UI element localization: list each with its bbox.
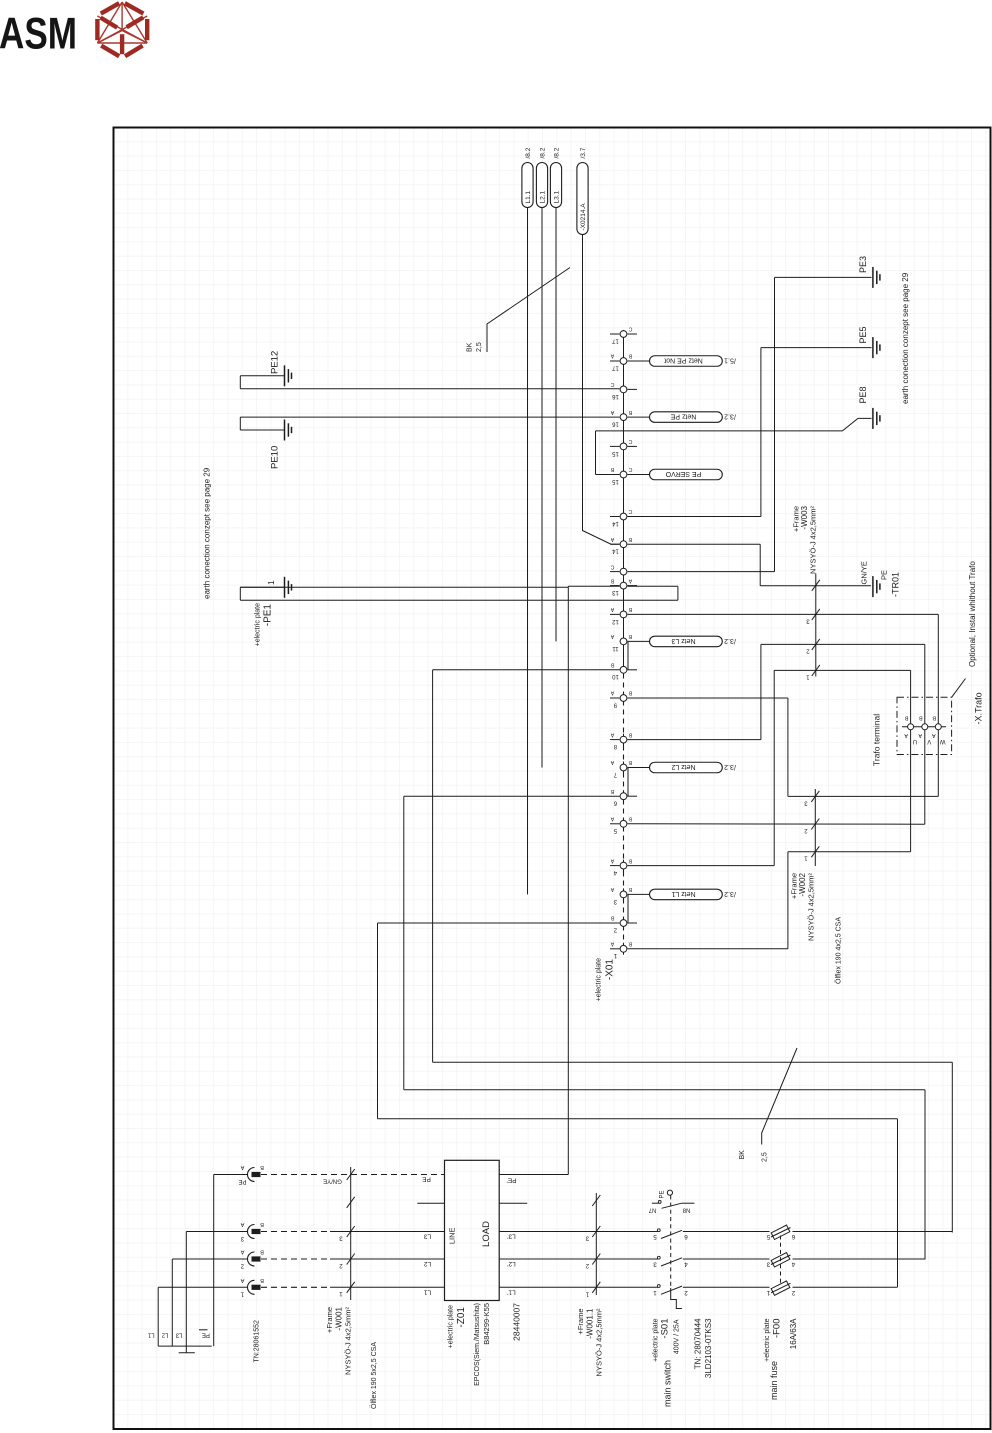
svg-text:-W001: -W001 xyxy=(335,1306,344,1330)
svg-text:4: 4 xyxy=(791,1261,795,1268)
svg-text:B: B xyxy=(904,714,908,720)
svg-text:L1: L1 xyxy=(424,1288,432,1295)
svg-text:3: 3 xyxy=(766,1261,770,1268)
svg-text:1: 1 xyxy=(240,1291,244,1297)
svg-text:2,5: 2,5 xyxy=(476,342,483,352)
svg-text:13: 13 xyxy=(612,589,619,595)
svg-text:3: 3 xyxy=(653,1261,657,1268)
svg-text:PE5: PE5 xyxy=(858,326,868,343)
svg-text:PE: PE xyxy=(202,1331,210,1337)
svg-text:V: V xyxy=(927,738,931,744)
svg-text:N8: N8 xyxy=(682,1206,690,1212)
svg-text:6: 6 xyxy=(684,1233,688,1240)
svg-text:+electric plate: +electric plate xyxy=(596,958,603,1001)
svg-text:W: W xyxy=(940,738,946,744)
svg-text:+electric plate: +electric plate xyxy=(764,1318,771,1361)
svg-text:B: B xyxy=(610,577,614,583)
svg-text:2: 2 xyxy=(684,1289,688,1296)
svg-text:L1.1: L1.1 xyxy=(525,190,532,203)
svg-text:L2: L2 xyxy=(424,1260,432,1267)
svg-text:L1': L1' xyxy=(507,1288,515,1295)
svg-text:PE3: PE3 xyxy=(858,256,868,273)
svg-text:B: B xyxy=(260,1277,264,1283)
svg-text:-X0214.A: -X0214.A xyxy=(580,203,587,231)
svg-text:EPCOS(Siem./Matsushita): EPCOS(Siem./Matsushita) xyxy=(474,1303,481,1386)
svg-text:1: 1 xyxy=(804,855,808,861)
svg-text:A: A xyxy=(240,1277,244,1283)
svg-text:main fuse: main fuse xyxy=(769,1361,779,1400)
svg-text:A: A xyxy=(610,731,614,737)
svg-text:Netz PE: Netz PE xyxy=(670,413,696,420)
svg-text:A: A xyxy=(904,732,908,738)
svg-text:3: 3 xyxy=(806,617,810,623)
svg-text:PE10: PE10 xyxy=(270,446,281,469)
svg-text:PE8: PE8 xyxy=(858,386,868,403)
svg-text:A: A xyxy=(932,732,936,738)
svg-text:U: U xyxy=(913,738,917,744)
svg-text:/5.1: /5.1 xyxy=(724,356,736,363)
svg-text:C: C xyxy=(628,466,632,472)
svg-text:Trafo terminal: Trafo terminal xyxy=(872,714,882,766)
svg-text:400V / 25A: 400V / 25A xyxy=(674,1319,681,1354)
svg-text:C: C xyxy=(610,563,614,569)
svg-text:LINE: LINE xyxy=(448,1227,457,1244)
svg-text:L1: L1 xyxy=(147,1331,154,1337)
svg-text:/3.7: /3.7 xyxy=(580,147,587,158)
svg-text:PE: PE xyxy=(880,570,889,580)
svg-text:NYSYÖ-J 4x2,5mm²: NYSYÖ-J 4x2,5mm² xyxy=(807,873,816,941)
svg-text:Netz PE Not: Netz PE Not xyxy=(664,356,703,363)
svg-text:-TR01: -TR01 xyxy=(891,572,901,597)
svg-text:A: A xyxy=(610,536,614,542)
svg-text:GN/YE: GN/YE xyxy=(323,1178,342,1184)
svg-text:/3.2: /3.2 xyxy=(724,763,736,770)
svg-text:B84299-K55: B84299-K55 xyxy=(482,1303,491,1345)
svg-text:B: B xyxy=(919,714,923,720)
svg-text:B: B xyxy=(610,662,614,668)
svg-text:Optional, Instal whithout Traf: Optional, Instal whithout Trafo xyxy=(968,561,977,667)
svg-text:A: A xyxy=(610,690,614,696)
svg-text:L3': L3' xyxy=(507,1233,515,1240)
svg-text:Ölflex 190 5x2,5 CSA: Ölflex 190 5x2,5 CSA xyxy=(370,1342,378,1409)
svg-text:N7: N7 xyxy=(648,1206,656,1212)
svg-text:1: 1 xyxy=(766,1289,770,1296)
svg-text:1: 1 xyxy=(266,580,276,585)
svg-text:C: C xyxy=(628,508,632,514)
svg-text:Netz L1: Netz L1 xyxy=(671,890,695,897)
svg-text:1: 1 xyxy=(339,1290,343,1296)
svg-text:B: B xyxy=(932,714,936,720)
svg-text:TN:28061552: TN:28061552 xyxy=(254,1320,261,1363)
svg-text:Ölflex 190 4x2,5 CSA: Ölflex 190 4x2,5 CSA xyxy=(835,917,843,984)
svg-text:+Frame: +Frame xyxy=(325,1307,334,1333)
svg-text:A: A xyxy=(240,1221,244,1227)
svg-text:A: A xyxy=(918,732,922,738)
svg-text:B: B xyxy=(610,466,614,472)
svg-text:/8.2: /8.2 xyxy=(540,147,547,158)
svg-text:12: 12 xyxy=(612,618,619,624)
svg-text:C: C xyxy=(628,326,632,332)
svg-text:C: C xyxy=(628,438,632,444)
svg-text:3: 3 xyxy=(339,1234,343,1240)
svg-text:15: 15 xyxy=(612,478,619,484)
svg-text:+Frame: +Frame xyxy=(576,1309,585,1335)
svg-text:Netz L2: Netz L2 xyxy=(671,763,695,770)
svg-text:3LD2103-0TKS3: 3LD2103-0TKS3 xyxy=(704,1318,713,1378)
svg-text:NYSYÖ-J 4x2,5mm²: NYSYÖ-J 4x2,5mm² xyxy=(344,1307,353,1375)
svg-text:PE: PE xyxy=(422,1176,431,1183)
svg-text:16: 16 xyxy=(612,420,619,426)
svg-text:L3: L3 xyxy=(424,1233,432,1240)
svg-text:PE': PE' xyxy=(507,1177,517,1184)
svg-text:-X.Trafo: -X.Trafo xyxy=(974,692,984,724)
svg-text:3: 3 xyxy=(804,799,808,805)
svg-text:L3.1: L3.1 xyxy=(554,190,561,203)
svg-text:-Z01: -Z01 xyxy=(456,1307,467,1328)
svg-text:A: A xyxy=(610,606,614,612)
svg-text:L2.1: L2.1 xyxy=(540,190,547,203)
svg-text:6: 6 xyxy=(791,1233,795,1240)
svg-text:L2': L2' xyxy=(507,1260,515,1267)
svg-text:16: 16 xyxy=(612,393,619,399)
svg-text:B: B xyxy=(610,788,614,794)
svg-text:LOAD: LOAD xyxy=(481,1221,492,1247)
svg-text:-F00: -F00 xyxy=(772,1319,783,1339)
svg-text:5: 5 xyxy=(766,1233,770,1240)
svg-text:ASM: ASM xyxy=(0,10,77,59)
svg-text:-S01: -S01 xyxy=(660,1319,671,1339)
svg-text:earth conection conzept see pa: earth conection conzept see page 29 xyxy=(901,272,910,404)
svg-text:Netz L3: Netz L3 xyxy=(671,637,695,644)
svg-text:A: A xyxy=(610,759,614,765)
svg-text:4: 4 xyxy=(684,1261,688,1268)
svg-text:L2: L2 xyxy=(161,1331,168,1337)
svg-text:1: 1 xyxy=(653,1289,657,1296)
svg-text:PE12: PE12 xyxy=(270,351,281,374)
svg-text:NYSYÖ-J 4x2,5mm²: NYSYÖ-J 4x2,5mm² xyxy=(809,506,818,574)
svg-text:10: 10 xyxy=(612,673,619,679)
svg-text:BK: BK xyxy=(739,1150,746,1160)
svg-text:2: 2 xyxy=(791,1289,795,1296)
svg-text:L3: L3 xyxy=(175,1331,182,1337)
svg-text:C: C xyxy=(610,381,614,387)
svg-text:-W001.1: -W001.1 xyxy=(586,1308,595,1339)
svg-text:/8.2: /8.2 xyxy=(525,147,532,158)
svg-text:B: B xyxy=(260,1221,264,1227)
svg-text:A: A xyxy=(610,353,614,359)
svg-text:+electric plate: +electric plate xyxy=(448,1305,455,1348)
svg-text:2: 2 xyxy=(339,1262,343,1268)
svg-text:GN/YE: GN/YE xyxy=(860,561,869,584)
svg-text:/3.2: /3.2 xyxy=(724,890,736,897)
svg-text:2: 2 xyxy=(240,1262,244,1268)
svg-text:1: 1 xyxy=(806,673,810,679)
svg-text:28440007: 28440007 xyxy=(512,1303,522,1341)
svg-text:A: A xyxy=(610,857,614,863)
svg-text:TN: 28070444: TN: 28070444 xyxy=(694,1318,703,1369)
svg-text:14: 14 xyxy=(612,548,619,554)
svg-text:/3.2: /3.2 xyxy=(724,413,736,420)
svg-text:/8.2: /8.2 xyxy=(554,147,561,158)
svg-text:2: 2 xyxy=(806,647,810,653)
svg-text:16A/63A: 16A/63A xyxy=(789,1318,798,1349)
svg-text:B: B xyxy=(610,915,614,921)
svg-text:14: 14 xyxy=(612,520,619,526)
svg-text:A: A xyxy=(610,633,614,639)
svg-text:B: B xyxy=(260,1164,264,1170)
svg-text:BK: BK xyxy=(467,342,474,352)
svg-text:earth conection conzept see pa: earth conection conzept see page 29 xyxy=(203,467,212,599)
svg-text:17: 17 xyxy=(612,337,619,343)
svg-text:15: 15 xyxy=(612,450,619,456)
svg-text:main switch: main switch xyxy=(663,1360,673,1407)
svg-text:A: A xyxy=(610,886,614,892)
svg-text:PE: PE xyxy=(238,1178,246,1184)
svg-text:NYSYÖ-J 4x2,5mm²: NYSYÖ-J 4x2,5mm² xyxy=(595,1308,604,1376)
svg-text:2,5: 2,5 xyxy=(762,1152,769,1162)
svg-text:PE: PE xyxy=(660,1190,666,1198)
svg-text:A: A xyxy=(610,941,614,947)
svg-text:-PE1: -PE1 xyxy=(263,604,274,627)
svg-text:B: B xyxy=(260,1249,264,1255)
svg-text:PE SERVO: PE SERVO xyxy=(665,470,701,477)
svg-text:11: 11 xyxy=(612,645,619,651)
svg-text:-X01: -X01 xyxy=(605,959,616,981)
svg-text:A: A xyxy=(240,1164,244,1170)
svg-text:3: 3 xyxy=(240,1235,244,1241)
svg-text:/3.2: /3.2 xyxy=(724,637,736,644)
svg-text:A: A xyxy=(240,1249,244,1255)
svg-text:A: A xyxy=(610,816,614,822)
svg-text:5: 5 xyxy=(653,1233,657,1240)
svg-text:+electric plate: +electric plate xyxy=(653,1318,660,1361)
svg-text:+electric plate: +electric plate xyxy=(255,603,262,646)
svg-text:17: 17 xyxy=(612,364,619,370)
